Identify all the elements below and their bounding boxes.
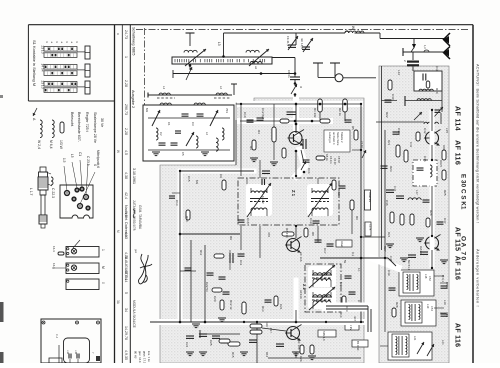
svg-text:L4: L4 <box>162 86 166 90</box>
svg-text:10.02: 10.02 <box>261 196 265 204</box>
svg-text:2,28: 2,28 <box>124 80 128 87</box>
svg-text:C4 9,1: C4 9,1 <box>329 156 333 164</box>
svg-text:gepr. 17.1: gepr. 17.1 <box>143 351 147 363</box>
svg-text:R11: R11 <box>199 250 203 256</box>
svg-text:Beleucht.: Beleucht. <box>70 112 74 127</box>
svg-text:Ubat: Ubat <box>340 241 344 247</box>
svg-text:L12: L12 <box>397 70 401 75</box>
svg-text:R23: R23 <box>389 166 393 172</box>
svg-text:Änderungen vorbehalten !: Änderungen vorbehalten ! <box>476 249 480 307</box>
svg-text:MODULA SKALICE: MODULA SKALICE <box>132 300 136 328</box>
svg-text:C52: C52 <box>428 276 432 281</box>
svg-text:W 2,4: W 2,4 <box>37 140 41 149</box>
svg-text:4A AUGUSTE 14: 4A AUGUSTE 14 <box>124 255 128 282</box>
svg-text:C 22.3: C 22.3 <box>51 188 55 198</box>
svg-text:GSM. TARAMBA: GSM. TARAMBA <box>138 205 142 230</box>
svg-text:R9: R9 <box>229 236 233 240</box>
svg-text:OA70: OA70 <box>439 160 443 168</box>
svg-text:4,38: 4,38 <box>124 172 128 179</box>
svg-text:4,9,35: 4,9,35 <box>124 350 128 360</box>
svg-text:R6 1k: R6 1k <box>325 154 329 161</box>
svg-text:Tabelle 2: Tabelle 2 <box>340 132 344 143</box>
svg-text:AF 116: AF 116 <box>299 252 303 262</box>
svg-text:L 1.7: L 1.7 <box>29 188 33 196</box>
svg-text:4n7: 4n7 <box>353 316 357 321</box>
svg-text:C43: C43 <box>397 128 401 134</box>
svg-text:L15: L15 <box>74 350 77 355</box>
svg-text:C2: C2 <box>159 132 163 136</box>
svg-text:C44: C44 <box>393 186 397 192</box>
svg-text:C8 40: C8 40 <box>337 156 341 163</box>
svg-text:L15: L15 <box>445 128 449 133</box>
svg-text:C14: C14 <box>307 168 311 174</box>
svg-text:4,5: 4,5 <box>124 150 128 155</box>
svg-text:Mn 51,1: Mn 51,1 <box>407 260 411 271</box>
svg-text:14 04: 14 04 <box>41 64 45 72</box>
svg-text:AF 116: AF 116 <box>454 323 461 347</box>
svg-text:R5: R5 <box>351 126 355 130</box>
svg-text:5k: 5k <box>343 260 347 264</box>
svg-text:L20: L20 <box>445 312 449 317</box>
svg-text:R4: R4 <box>257 130 261 134</box>
svg-text:23 10: 23 10 <box>41 46 45 54</box>
svg-text:C26: C26 <box>299 356 303 362</box>
svg-text:C27a: C27a <box>369 224 373 231</box>
svg-text:M1: M1 <box>145 108 149 112</box>
svg-text:0: 0 <box>101 282 105 284</box>
svg-text:R13: R13 <box>261 306 265 312</box>
svg-text:1: 1 <box>101 249 105 251</box>
svg-text:C3: C3 <box>191 122 195 126</box>
svg-text:L19: L19 <box>426 304 430 309</box>
svg-text:R15: R15 <box>231 352 235 358</box>
svg-text:L19: L19 <box>443 300 447 305</box>
svg-text:1/3 W: 1/3 W <box>59 140 63 150</box>
svg-text:M1: M1 <box>339 282 343 286</box>
svg-text:24,73: 24,73 <box>124 30 128 39</box>
svg-text:1,3: 1,3 <box>423 45 427 49</box>
svg-text:C13: C13 <box>175 200 179 206</box>
svg-text:a: a <box>116 33 120 35</box>
svg-text:C49: C49 <box>387 270 391 276</box>
svg-text:R16: R16 <box>265 322 269 327</box>
svg-text:14,29,78: 14,29,78 <box>124 326 128 340</box>
svg-text:L18: L18 <box>424 274 428 279</box>
svg-text:R10: R10 <box>185 216 189 222</box>
svg-text:04 40: 04 40 <box>333 158 337 165</box>
svg-text:Ubat 9V: Ubat 9V <box>368 192 372 202</box>
svg-text:1.5: 1.5 <box>62 158 66 163</box>
svg-text:C45: C45 <box>423 156 427 162</box>
svg-text:3.10.1961: 3.10.1961 <box>132 168 136 184</box>
svg-text:C40: C40 <box>391 94 395 100</box>
svg-text:C23: C23 <box>345 306 349 312</box>
svg-text:R12 1k: R12 1k <box>229 300 233 310</box>
svg-text:R24: R24 <box>387 232 391 238</box>
svg-text:Skalenlampe 28 Ve: Skalenlampe 28 Ve <box>93 112 97 143</box>
svg-text:C47: C47 <box>443 218 447 224</box>
svg-text:L5: L5 <box>70 154 74 158</box>
svg-text:2,28: 2,28 <box>124 128 128 135</box>
svg-text:Regler 725 t: Regler 725 t <box>85 112 89 132</box>
svg-text:L2: L2 <box>219 86 223 90</box>
svg-text:M: M <box>116 230 120 233</box>
svg-text:C1: C1 <box>167 122 171 126</box>
svg-text:C54: C54 <box>430 306 434 311</box>
svg-text:C42: C42 <box>423 128 427 134</box>
svg-text:R14: R14 <box>339 312 343 318</box>
svg-text:C 23.3: C 23.3 <box>86 156 90 166</box>
svg-text:R8: R8 <box>311 232 315 236</box>
svg-text:SPR 1,6: SPR 1,6 <box>322 331 326 341</box>
svg-text:gez: gez <box>134 249 137 254</box>
svg-text:34: 34 <box>124 308 128 312</box>
svg-text:L13: L13 <box>66 350 69 355</box>
svg-text:R1 22k: R1 22k <box>313 108 317 118</box>
svg-text:290,73: 290,73 <box>124 104 128 115</box>
svg-text:Bereichstaste 637-: Bereichstaste 637- <box>77 112 81 143</box>
svg-text:U: U <box>299 86 303 88</box>
svg-text:AF 115 AF 116: AF 115 AF 116 <box>454 227 461 280</box>
svg-text:Siehe Seite: Siehe Seite <box>336 132 340 146</box>
svg-text:R6: R6 <box>355 216 359 220</box>
svg-text:C21: C21 <box>279 304 283 310</box>
svg-text:Leitung A: Leitung A <box>328 132 332 143</box>
svg-text:C8 6n: C8 6n <box>287 70 291 78</box>
svg-text:23 10: 23 10 <box>41 81 45 89</box>
svg-text:C39: C39 <box>435 66 439 72</box>
svg-text:AF116: AF116 <box>299 290 303 299</box>
svg-text:R3: R3 <box>249 146 253 150</box>
svg-text:C1: C1 <box>78 152 82 156</box>
svg-text:L21: L21 <box>441 340 445 345</box>
svg-text:B1 R10: B1 R10 <box>356 341 360 351</box>
svg-text:E 30 C S K1: E 30 C S K1 <box>460 174 467 210</box>
svg-text:AF 116: AF 116 <box>297 340 301 350</box>
svg-text:0,1: 0,1 <box>351 252 355 257</box>
svg-text:1n: 1n <box>357 268 361 272</box>
svg-text:80 HJ: 80 HJ <box>134 351 138 359</box>
svg-text:R25: R25 <box>443 190 447 196</box>
svg-text:a1: a1 <box>254 66 258 70</box>
svg-text:16.3: 16.3 <box>52 246 56 252</box>
svg-text:R21: R21 <box>387 140 391 146</box>
svg-text:W: W <box>351 26 355 29</box>
svg-text:C24: C24 <box>185 342 189 348</box>
svg-text:R7 470: R7 470 <box>285 228 289 238</box>
svg-text:R22: R22 <box>385 112 389 118</box>
svg-text:AF 114 AF 116: AF 114 AF 116 <box>454 106 463 165</box>
svg-text:C19: C19 <box>309 218 313 224</box>
svg-text:L17: L17 <box>415 190 419 195</box>
svg-text:C16: C16 <box>337 190 341 196</box>
svg-text:R27: R27 <box>383 246 387 252</box>
svg-text:470: 470 <box>267 232 271 237</box>
svg-text:R26: R26 <box>429 210 433 216</box>
svg-text:C10: C10 <box>243 112 247 118</box>
svg-text:Ausgabe 2: Ausgabe 2 <box>131 90 135 108</box>
svg-text:Schaltweg 68b5: Schaltweg 68b5 <box>132 27 137 56</box>
svg-text:R2 1k: R2 1k <box>338 108 342 116</box>
svg-text:1: 1 <box>124 56 128 58</box>
svg-text:C9: C9 <box>219 174 223 178</box>
svg-text:W: W <box>116 150 120 153</box>
svg-text:an Punkt 4: an Punkt 4 <box>332 132 336 145</box>
svg-text:C18: C18 <box>246 218 250 224</box>
svg-text:R16: R16 <box>265 352 269 358</box>
svg-text:OA 70: OA 70 <box>460 236 467 262</box>
svg-text:Ers. f. Er: Ers. f. Er <box>147 351 151 362</box>
svg-text:C50: C50 <box>445 282 449 288</box>
svg-text:5: 5 <box>124 292 128 294</box>
svg-text:C17: C17 <box>323 248 327 254</box>
svg-text:C11: C11 <box>239 260 243 266</box>
svg-text:C41: C41 <box>409 142 413 148</box>
svg-text:701: 701 <box>225 108 229 113</box>
svg-text:M 6,4: M 6,4 <box>49 140 53 149</box>
svg-text:Z 1: Z 1 <box>291 190 296 197</box>
svg-text:C48: C48 <box>389 256 393 262</box>
svg-text:M 9,1: M 9,1 <box>441 275 445 282</box>
svg-text:C5: C5 <box>181 152 185 156</box>
svg-text:S1 Kontakte in Stellung M: S1 Kontakte in Stellung M <box>32 40 37 86</box>
svg-text:R28: R28 <box>395 302 399 308</box>
svg-text:C22 5n: C22 5n <box>205 282 209 292</box>
svg-text:C15: C15 <box>187 176 191 182</box>
svg-text:ACHTUNG! Beim Schaltbild auf: ACHTUNG! Beim Schaltbild auf die unsere … <box>476 64 480 223</box>
svg-text:L3: L3 <box>217 42 221 46</box>
svg-text:Nachricht. Datensch: Nachricht. Datensch <box>124 205 128 237</box>
svg-text:C46: C46 <box>385 200 389 206</box>
svg-text:30 Ve: 30 Ve <box>100 118 104 127</box>
svg-text:L2: L2 <box>205 132 209 136</box>
svg-text:C25: C25 <box>209 340 213 346</box>
svg-text:Mittelpunkt 6: Mittelpunkt 6 <box>96 150 100 168</box>
svg-text:JUTAHER 42/92/4/78: JUTAHER 42/92/4/78 <box>132 200 136 231</box>
svg-text:gez. 14.11.: gez. 14.11. <box>138 351 142 363</box>
svg-text:R20: R20 <box>435 88 439 94</box>
svg-text:M3: M3 <box>195 180 199 184</box>
svg-text:42,4: 42,4 <box>124 192 128 199</box>
svg-text:M: M <box>101 266 105 269</box>
svg-text:L21: L21 <box>413 336 417 341</box>
svg-text:C20: C20 <box>213 296 217 302</box>
svg-text:OA70: OA70 <box>419 246 423 254</box>
